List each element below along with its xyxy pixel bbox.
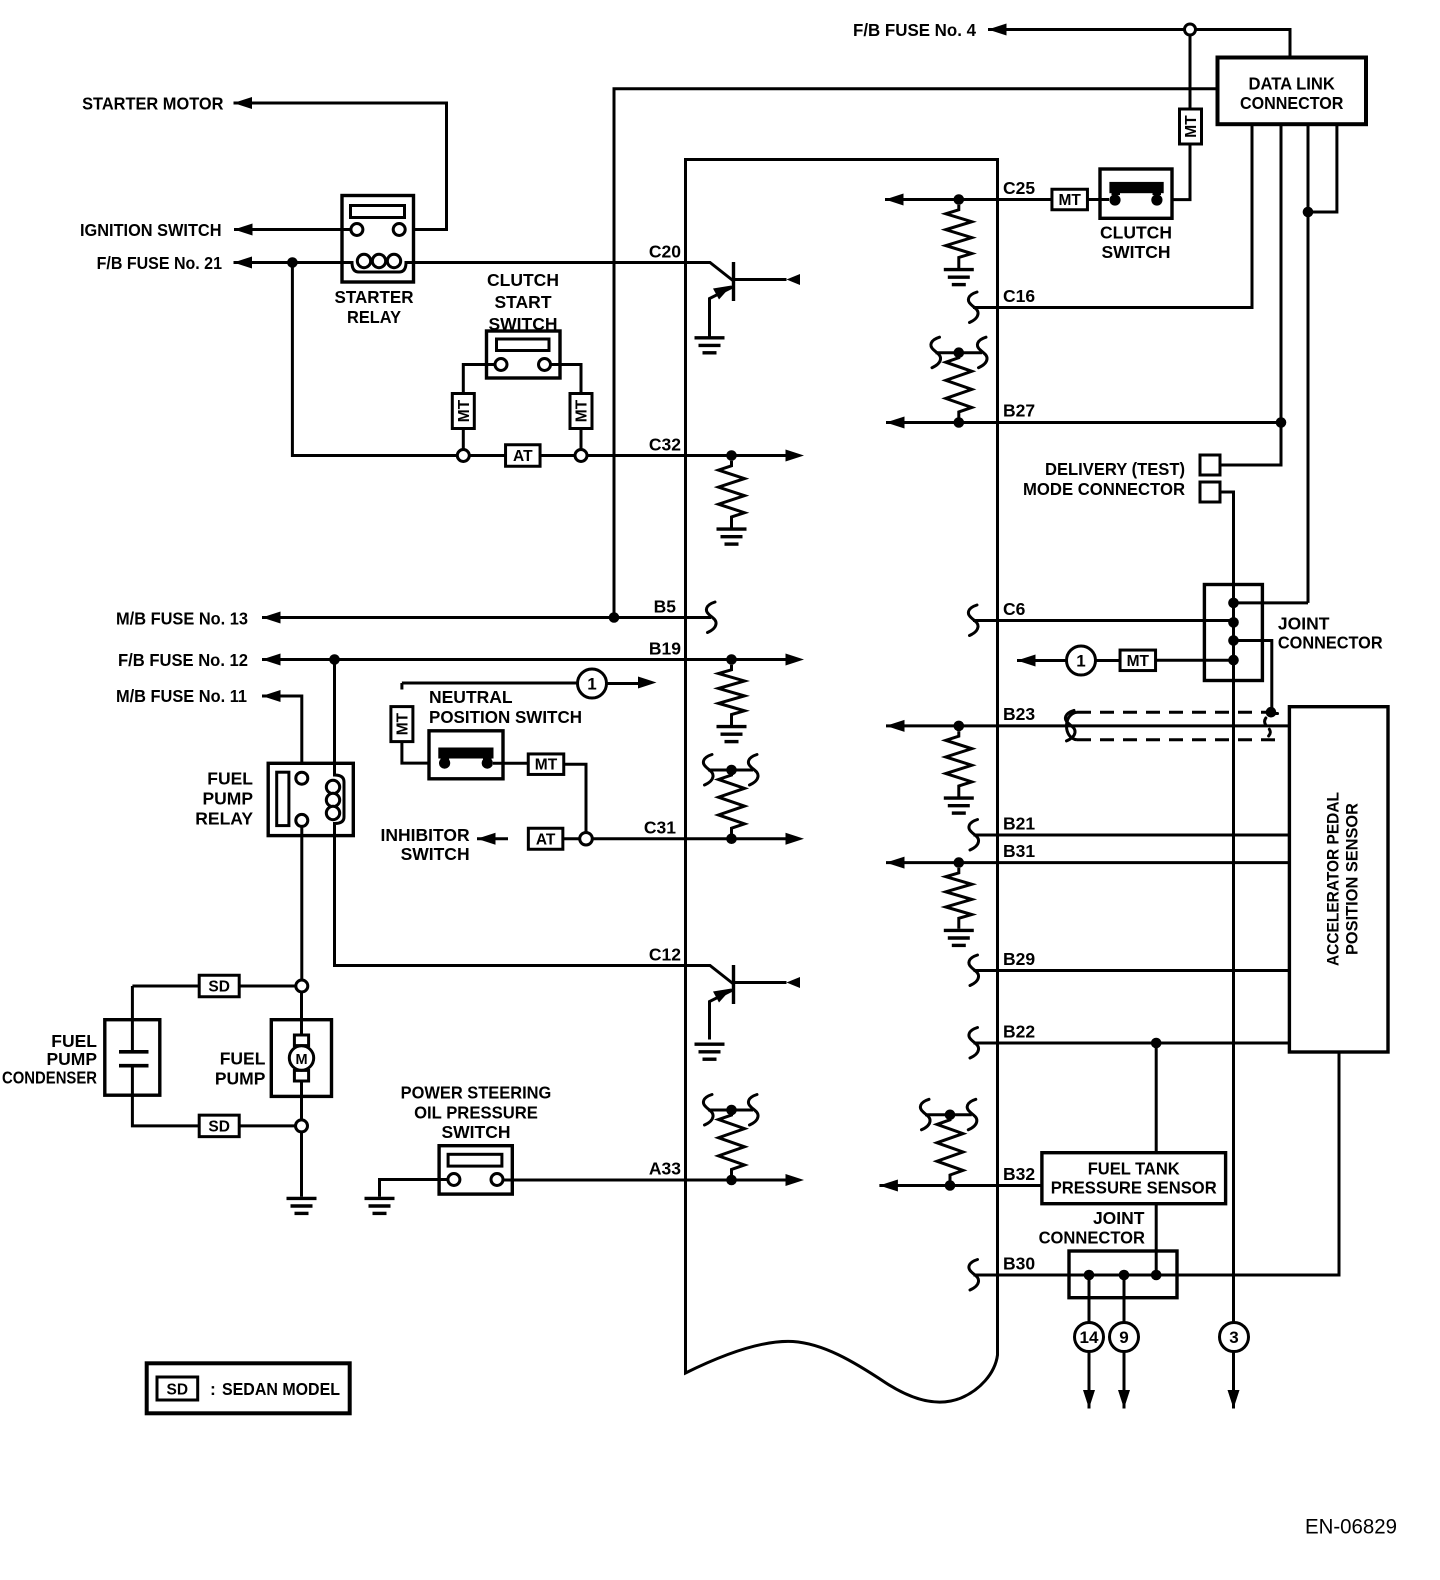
junction (hollow) AT line right (575, 450, 587, 462)
resistor R1 at C32 (719, 461, 745, 528)
junction C32 (726, 450, 737, 461)
junction B23 (954, 721, 965, 732)
arrow B32 out (879, 1180, 898, 1192)
break symbol B5 (706, 602, 716, 633)
capacitor C1 FUEL PUMP CONDENSER (105, 1020, 160, 1095)
junction C25 (954, 194, 965, 205)
switch S4 CLUTCH SWITCH (1100, 169, 1172, 218)
svg-text:MT: MT (1183, 115, 1200, 138)
starter relay contact left (351, 224, 363, 236)
ground Q1 emitter (695, 338, 725, 353)
ground R7 (944, 798, 974, 813)
wire circled3 to arrow (1232, 1352, 1235, 1409)
arrow to INHIBITOR SWITCH (477, 833, 496, 845)
svg-text:CONDENSER: CONDENSER (2, 1068, 97, 1088)
arrow to M/B FUSE No. 11 (262, 690, 281, 702)
connector U1 DATA LINK CONNECTOR (1218, 58, 1367, 125)
pin label B31 (1003, 841, 1035, 861)
shield dashed box B23 (1067, 712, 1278, 740)
transistor Q1 at C20 (686, 262, 801, 337)
J1 pin1 (1228, 598, 1239, 609)
wire B22 branch to FTPS (1155, 1043, 1158, 1153)
pin label B23 (1003, 704, 1035, 724)
wire C12 from relay coil (335, 836, 686, 966)
node M/B FUSE No. 11 (116, 686, 247, 706)
wire SD bottom to pump node (239, 1124, 296, 1127)
MT tag right leg (570, 394, 592, 429)
svg-text:MT: MT (394, 712, 411, 735)
svg-text:MODE CONNECTOR: MODE CONNECTOR (1023, 479, 1185, 499)
resistor R8 at B31 (946, 868, 972, 929)
arrow C32 out (786, 450, 805, 462)
svg-text:PUMP: PUMP (46, 1049, 97, 1069)
svg-text:C20: C20 (649, 242, 681, 262)
fuel pump relay coil (326, 763, 344, 835)
junction B32 (945, 1180, 956, 1191)
psw contact left (448, 1174, 460, 1186)
node F/B FUSE No. 12 (118, 650, 248, 670)
ground R1 (717, 529, 747, 544)
wire C6 interior (973, 619, 998, 622)
svg-text:MT: MT (1059, 192, 1082, 209)
starter relay contact right (393, 224, 405, 236)
resistor R3 above C31 (719, 770, 745, 839)
psw contact right (491, 1174, 503, 1186)
svg-text:C6: C6 (1003, 599, 1026, 619)
junction (hollow) SD top (296, 980, 308, 992)
svg-text:B22: B22 (1003, 1022, 1035, 1042)
svg-text:MT: MT (1127, 653, 1150, 670)
svg-text:RELAY: RELAY (347, 307, 401, 327)
wire condenser to SD bottom (132, 1095, 199, 1126)
wire circled1 to MT (1096, 659, 1121, 662)
sensor U3 FUEL TANK PRESSURE SENSOR (1042, 1153, 1226, 1204)
svg-text:14: 14 (1080, 1328, 1099, 1347)
svg-text:B19: B19 (649, 639, 681, 659)
wire NPS left leg upper (400, 683, 403, 690)
svg-text:INHIBITOR: INHIBITOR (380, 825, 469, 845)
svg-text:F/B FUSE No. 21: F/B FUSE No. 21 (97, 253, 223, 273)
svg-text:F/B FUSE No. 4: F/B FUSE No. 4 (853, 20, 976, 40)
svg-text:M/B FUSE No. 13: M/B FUSE No. 13 (116, 609, 248, 629)
svg-text:1: 1 (587, 675, 596, 694)
svg-text:SD: SD (208, 979, 230, 996)
pin label C20 (649, 242, 681, 262)
svg-text:B21: B21 (1003, 814, 1035, 834)
wire B27 interior (886, 421, 1281, 424)
svg-text:MT: MT (456, 399, 473, 422)
junction R4 top (726, 1105, 737, 1116)
svg-text:RELAY: RELAY (195, 809, 253, 829)
node F/B FUSE No. 21 (97, 253, 223, 273)
wire fuse12 branch to fuel pump relay coil (333, 660, 336, 764)
wire C6 to J1 pin2 (998, 619, 1234, 622)
break symbol R3 right (748, 755, 758, 786)
break symbol R9 left (920, 1099, 930, 1130)
wire relay to SD junction (300, 826, 303, 980)
arrow B19 out (786, 654, 805, 666)
wire F/B FUSE No. 4 to data link connector (988, 30, 1290, 58)
arrow circuit 1 out (1017, 655, 1036, 667)
stub R3 left (708, 769, 732, 772)
break symbol B29 (969, 955, 979, 986)
wire B31 interior (886, 861, 998, 864)
resistor R9 above B32 (937, 1115, 963, 1186)
wire AT line segments (469, 454, 685, 457)
svg-text:FUEL TANK: FUEL TANK (1088, 1159, 1180, 1179)
resistor R7 at B23 (946, 731, 972, 796)
wire J1 pin3 to shield (1234, 641, 1272, 713)
svg-text:SWITCH: SWITCH (401, 844, 470, 864)
label FUEL PUMP RELAY (195, 769, 253, 829)
SD tag bottom (199, 1115, 239, 1137)
svg-text:F/B FUSE No. 12: F/B FUSE No. 12 (118, 650, 248, 670)
pin label B5 (654, 597, 677, 617)
label EN-06829 (1305, 1516, 1397, 1539)
NPS contact left (439, 758, 450, 769)
svg-text:IGNITION SWITCH: IGNITION SWITCH (80, 220, 222, 240)
arrow to F/B FUSE No. 4 (988, 24, 1007, 36)
J2 pin2 (1119, 1270, 1130, 1281)
label CLUTCH SWITCH (1100, 223, 1172, 263)
junction B5/bus riser (609, 612, 620, 623)
arrow to M/B FUSE No. 13 (262, 612, 281, 624)
pin label C32 (649, 435, 681, 455)
node F/B FUSE No. 4 (853, 20, 976, 40)
svg-text:SWITCH: SWITCH (1101, 242, 1170, 262)
wire NPS MT to inhibitor node (564, 764, 586, 832)
resistor R2 at B19 (719, 665, 745, 725)
junction B31 (954, 857, 965, 868)
svg-text:CLUTCH: CLUTCH (487, 270, 559, 290)
stub R4 right (732, 1109, 754, 1112)
wire circled14 to arrow (1088, 1352, 1091, 1409)
junction delivery/B27/DLC (1276, 417, 1287, 428)
junction A33 (726, 1175, 737, 1186)
wire C20 relay coil to ECM (414, 261, 686, 264)
resistor R4 above A33 (719, 1110, 745, 1180)
svg-text:CONNECTOR: CONNECTOR (1240, 93, 1344, 113)
J1 pin3 (1228, 635, 1239, 646)
wire C31 row to ECM (592, 837, 685, 840)
label FUEL PUMP CONDENSER (2, 1031, 97, 1088)
node 1 (circled) right (1067, 646, 1096, 675)
junction fuse21/AT branch (287, 257, 298, 268)
relay K2 FUEL PUMP RELAY (268, 763, 353, 835)
wire psw left to ground (380, 1180, 448, 1197)
wire NPS top run (402, 682, 578, 685)
svg-text:FUEL: FUEL (220, 1049, 266, 1069)
junction C31 (726, 833, 737, 844)
svg-text:CONNECTOR: CONNECTOR (1278, 633, 1383, 653)
wire B5 interior (686, 616, 712, 619)
AT tag on inhibitor line (528, 828, 563, 849)
wire B30 interior (974, 1274, 998, 1277)
wire A33 interior (686, 1179, 787, 1182)
pin label C6 (1003, 599, 1026, 619)
wire B5 row (262, 616, 686, 619)
svg-text:STARTER: STARTER (335, 287, 414, 307)
arrow to IGNITION SWITCH (234, 224, 253, 236)
svg-text:POSITION SENSOR: POSITION SENSOR (1344, 803, 1362, 955)
switch S1 CLUTCH START SWITCH (487, 331, 561, 378)
junction B27 (954, 417, 965, 428)
junction B22/fuel tank sensor (1151, 1038, 1162, 1049)
pin label C12 (649, 945, 681, 965)
connector pin delivery 2 (1200, 482, 1220, 502)
break symbol shield left (1065, 710, 1075, 741)
svg-text:PUMP: PUMP (215, 1069, 266, 1089)
stub R3 right (732, 769, 754, 772)
wire arrow to circled 1 (1017, 659, 1067, 662)
svg-text:C25: C25 (1003, 178, 1035, 198)
ground Q2 emitter (695, 1044, 725, 1059)
wire pump to ground (300, 1132, 303, 1197)
wire J2 pin2 down (1123, 1275, 1126, 1323)
wire B32 interior (879, 1184, 997, 1187)
svg-text:CLUTCH: CLUTCH (1100, 223, 1172, 243)
ground R2 (717, 727, 747, 742)
wire B31 to APS (998, 861, 1290, 864)
resistor R5 at C25 (946, 205, 972, 268)
ground R8 (944, 930, 974, 945)
wire AT branch down (292, 263, 457, 456)
break symbol R6 right (977, 337, 987, 368)
junction (hollow) below pump (296, 1120, 308, 1132)
break symbol C16 (968, 292, 978, 323)
svg-text:POWER STEERING: POWER STEERING (401, 1082, 552, 1102)
resistor R6 above B27 (946, 353, 972, 423)
MT tag circuit 1 (1120, 650, 1156, 671)
switch S3 POWER STEERING OIL PRESSURE SWITCH (439, 1146, 512, 1194)
arrow C25 out (885, 194, 904, 206)
label NEUTRAL POSITION SWITCH (429, 687, 582, 727)
break symbol R9 right (967, 1099, 977, 1130)
svg-text:PUMP: PUMP (202, 789, 253, 809)
clutch switch contact left (1109, 194, 1120, 205)
svg-text:B29: B29 (1003, 949, 1035, 969)
arrow to STARTER MOTOR (234, 97, 253, 109)
svg-text:DATA LINK: DATA LINK (1248, 74, 1335, 94)
wire clutch start sw right leg (551, 365, 582, 394)
svg-text:B5: B5 (654, 597, 677, 617)
wire NPS right to MT (493, 762, 529, 765)
arrow C31 out (786, 833, 805, 845)
break symbol R4 left (703, 1095, 713, 1126)
pin label C31 (644, 818, 676, 838)
junction (hollow) on fuse4 wire (1185, 24, 1196, 35)
wire B19 row (262, 658, 686, 661)
wire SD top left (132, 985, 199, 988)
svg-text:SD: SD (208, 1118, 230, 1135)
node IGNITION SWITCH (80, 220, 222, 240)
junction shield/J1 pin3 (1266, 707, 1277, 718)
svg-text:JOINT: JOINT (1093, 1208, 1145, 1228)
break symbol B22 (969, 1028, 979, 1059)
connector J2 JOINT CONNECTOR (1069, 1251, 1177, 1298)
transistor Q2 at C12 (686, 965, 801, 1040)
wire MT to AT-line left (462, 429, 465, 450)
svg-text::: : (210, 1379, 216, 1399)
wire fuse11 to fuel pump relay (262, 696, 302, 772)
label POWER STEERING OIL PRESSURE SWITCH (401, 1082, 552, 1142)
label JOINT CONNECTOR (1278, 614, 1383, 653)
svg-text:B31: B31 (1003, 841, 1035, 861)
node 9 (circled) (1110, 1323, 1139, 1352)
svg-text:C31: C31 (644, 818, 676, 838)
wire DLC pin2 to B27 line (1280, 124, 1283, 422)
svg-text:NEUTRAL: NEUTRAL (429, 687, 513, 707)
label JOINT CONNECTOR bottom (1039, 1208, 1146, 1248)
wire B30 through J2 (998, 1274, 1340, 1277)
svg-text:C16: C16 (1003, 286, 1035, 306)
pin label B29 (1003, 949, 1035, 969)
svg-text:1: 1 (1076, 652, 1085, 671)
wire starter motor to relay contact (234, 103, 447, 230)
arrow circuit 9 down (1118, 1390, 1130, 1409)
wire circled9 to arrow (1123, 1352, 1126, 1409)
arrow A33 out (786, 1174, 805, 1186)
MT tag NPS right (528, 754, 564, 775)
relay K1 STARTER RELAY (342, 196, 414, 283)
wire DLC pin4 joins pin3 (1308, 124, 1337, 212)
J2 pin3 (1151, 1270, 1162, 1281)
wire SD1 to SD box (239, 985, 296, 988)
junction DLC pin3/pin4 (1303, 207, 1314, 218)
motor M1 FUEL PUMP (271, 992, 331, 1120)
wire C25 to MT tag (998, 198, 1054, 201)
arrow NPS to ECM (607, 677, 657, 689)
wire DLC pin3 down (1307, 124, 1310, 603)
svg-text:C12: C12 (649, 945, 681, 965)
label CLUTCH START SWITCH (487, 270, 559, 334)
arrow circuit 3 down (1228, 1390, 1240, 1409)
wire B22 to APS (998, 1042, 1290, 1045)
ground power steering switch (365, 1198, 395, 1213)
arrow to F/B FUSE No. 12 (262, 654, 281, 666)
break symbol shield right (1265, 713, 1278, 738)
svg-text:SD: SD (167, 1382, 189, 1399)
svg-text:C32: C32 (649, 435, 681, 455)
pin label B27 (1003, 401, 1035, 421)
pin label B32 (1003, 1164, 1035, 1184)
svg-text:B23: B23 (1003, 704, 1035, 724)
svg-text:A33: A33 (649, 1159, 681, 1179)
wire MT tag to clutch switch box (1088, 198, 1110, 201)
wire MT tag to clutch switch (1160, 144, 1190, 200)
arrow B23 out (886, 720, 905, 732)
pin label B22 (1003, 1022, 1035, 1042)
pin label A33 (649, 1159, 681, 1179)
svg-text:DELIVERY (TEST): DELIVERY (TEST) (1045, 459, 1185, 479)
MT tag NPS left (391, 707, 413, 742)
clutch start switch contact left (495, 359, 507, 371)
svg-text:ACCELERATOR PEDAL: ACCELERATOR PEDAL (1325, 792, 1343, 966)
junction R9 top (945, 1110, 956, 1121)
node STARTER MOTOR (82, 94, 224, 114)
wire J2 pin1 down (1088, 1275, 1091, 1323)
connector pin delivery 1 (1200, 455, 1220, 475)
svg-text:EN-06829: EN-06829 (1305, 1516, 1397, 1539)
NPS contact right (482, 758, 493, 769)
fuel pump relay contact top (296, 772, 308, 784)
arrow B27 out (886, 417, 905, 429)
stub R6 right (959, 351, 982, 354)
wire inhibitor to AT tag (477, 837, 508, 840)
junction (hollow) AT line left (457, 450, 469, 462)
break symbol R4 right (748, 1095, 758, 1126)
MT tag on clutch-switch feed (1180, 109, 1202, 144)
wire MT drop from fuse4 junction (1189, 30, 1192, 111)
J1 pin2 (1228, 617, 1239, 628)
AT tag on C32 line (506, 445, 541, 467)
svg-text:FUEL: FUEL (207, 769, 253, 789)
wire AT to junction (563, 837, 580, 840)
junction (hollow) inhibitor/NPS (580, 832, 593, 845)
svg-text:START: START (494, 292, 551, 312)
junction B19 (726, 654, 737, 665)
pin label B30 (1003, 1254, 1035, 1274)
arrow circuit 14 down (1083, 1390, 1095, 1409)
wire A33 row (503, 1179, 686, 1182)
stub R9 left (925, 1113, 950, 1116)
svg-text:B32: B32 (1003, 1164, 1035, 1184)
wire ignition switch to relay (234, 228, 351, 231)
wire B23 interior (886, 724, 998, 727)
starter relay coil (342, 254, 414, 272)
svg-text:POSITION SWITCH: POSITION SWITCH (429, 707, 582, 727)
node 14 (circled) (1075, 1323, 1104, 1352)
svg-text:FUEL: FUEL (51, 1031, 97, 1051)
J2 pin1 (1084, 1270, 1095, 1281)
node 1 (circled) NPS (578, 669, 607, 698)
svg-text:MT: MT (574, 399, 591, 422)
label DELIVERY (TEST) MODE CONNECTOR (1023, 459, 1185, 499)
wire MT to AT-line right (580, 429, 583, 450)
wire B19 interior (686, 658, 787, 661)
legend box SD SEDAN MODEL (147, 1363, 350, 1413)
wire C31 interior (686, 837, 787, 840)
sensor U2 ACCELERATOR PEDAL POSITION SENSOR (1289, 707, 1388, 1052)
svg-text:STARTER MOTOR: STARTER MOTOR (82, 94, 224, 114)
stub R9 right (950, 1113, 972, 1116)
arrow to F/B FUSE No. 21 (234, 257, 253, 269)
wire fuse21 to relay coil (234, 261, 343, 264)
pin label C16 (1003, 286, 1035, 306)
wire B29 interior (974, 969, 998, 972)
wire B22 interior (974, 1042, 998, 1045)
svg-text:SWITCH: SWITCH (441, 1122, 510, 1142)
junction R3 top (726, 765, 737, 776)
break symbol B21 (969, 820, 979, 851)
node INHIBITOR SWITCH (380, 825, 469, 864)
pin label B19 (649, 639, 681, 659)
arrow B31 out (886, 857, 905, 869)
wire J1 pin1 to DLC (1234, 601, 1309, 604)
J1 pin4 (1228, 655, 1239, 666)
svg-text:OIL PRESSURE: OIL PRESSURE (414, 1103, 538, 1123)
svg-text:AT: AT (513, 448, 533, 465)
wire condenser drop (131, 986, 134, 1020)
svg-text:PRESSURE SENSOR: PRESSURE SENSOR (1051, 1178, 1217, 1198)
stub R6 left (936, 351, 959, 354)
wire DLC pin1 to C16 (998, 124, 1253, 307)
ground R5 (944, 270, 974, 285)
wire B29 to APS (998, 969, 1290, 972)
break symbol C6 (968, 605, 978, 636)
wire delivery pin2 down (1220, 492, 1234, 1324)
svg-text:CONNECTOR: CONNECTOR (1039, 1228, 1146, 1248)
